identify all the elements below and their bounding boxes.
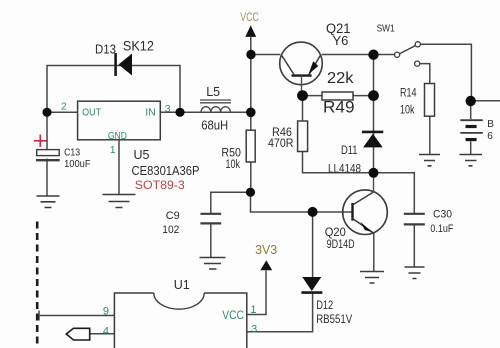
resistor R46 bbox=[268, 121, 308, 152]
wire bbox=[373, 55, 375, 173]
svg-text:SK12: SK12 bbox=[123, 39, 154, 54]
svg-text:3V3: 3V3 bbox=[255, 243, 277, 257]
wire bbox=[118, 140, 120, 195]
svg-text:10k: 10k bbox=[226, 159, 241, 171]
wire bbox=[90, 333, 115, 335]
junction node dots bbox=[42, 50, 476, 217]
svg-text:D12: D12 bbox=[316, 300, 333, 312]
node VCC junction bbox=[246, 50, 255, 59]
wire bbox=[211, 192, 251, 213]
node VCC arrow bbox=[245, 25, 256, 37]
resistor R14 bbox=[400, 84, 435, 117]
diode D13 bbox=[95, 39, 154, 77]
svg-text:9D14D: 9D14D bbox=[327, 239, 355, 251]
ground bbox=[37, 196, 60, 208]
svg-text:0.1uF: 0.1uF bbox=[430, 223, 453, 235]
svg-text:D13: D13 bbox=[95, 42, 116, 57]
svg-text:Q20: Q20 bbox=[325, 227, 346, 239]
wire bbox=[47, 111, 78, 113]
svg-text:9: 9 bbox=[103, 306, 109, 318]
wire bbox=[413, 225, 415, 267]
node battery junction bbox=[466, 96, 476, 106]
capacitor C13 bbox=[34, 135, 91, 170]
capacitor C9 bbox=[162, 210, 221, 236]
wire bbox=[210, 224, 212, 258]
diode D12 bbox=[301, 277, 352, 326]
svg-text:1: 1 bbox=[110, 144, 116, 156]
node D11/Q20 junction bbox=[369, 168, 379, 178]
svg-text:470R: 470R bbox=[268, 138, 294, 150]
wire bbox=[312, 212, 314, 277]
svg-text:6: 6 bbox=[487, 131, 493, 142]
svg-text:100uF: 100uF bbox=[64, 158, 91, 170]
svg-text:IN: IN bbox=[145, 106, 156, 118]
svg-text:68uH: 68uH bbox=[201, 118, 228, 132]
IC U1 bbox=[103, 278, 257, 348]
ground bbox=[200, 258, 226, 270]
wire bbox=[251, 54, 280, 56]
svg-text:1: 1 bbox=[250, 304, 256, 316]
svg-text:SOT89-3: SOT89-3 bbox=[135, 180, 185, 192]
svg-text:C30: C30 bbox=[433, 209, 452, 221]
svg-text:RB551V: RB551V bbox=[316, 314, 352, 326]
svg-text:CE8301A36P: CE8301A36P bbox=[132, 164, 200, 178]
node R50/C9 junction bbox=[246, 188, 255, 197]
wire bbox=[470, 142, 472, 155]
svg-text:2: 2 bbox=[61, 101, 67, 113]
wire bbox=[303, 95, 323, 97]
wire bbox=[420, 64, 430, 84]
svg-text:102: 102 bbox=[162, 224, 179, 236]
svg-text:L5: L5 bbox=[206, 85, 220, 99]
node R49/D11 junction bbox=[368, 90, 379, 101]
svg-text:GND: GND bbox=[108, 130, 127, 142]
svg-text:B: B bbox=[487, 119, 494, 130]
wire bbox=[322, 54, 395, 56]
svg-text:22k: 22k bbox=[327, 70, 355, 87]
wire bbox=[38, 311, 40, 321]
resistor R49 bbox=[322, 70, 355, 116]
diode D11 bbox=[328, 132, 383, 176]
wire bbox=[250, 37, 252, 112]
wire bbox=[420, 44, 471, 96]
inductor L5 bbox=[200, 85, 231, 132]
svg-text:U5: U5 bbox=[134, 148, 150, 162]
svg-text:10k: 10k bbox=[400, 105, 415, 117]
svg-text:LL4148: LL4148 bbox=[328, 164, 361, 176]
wire bbox=[251, 192, 353, 212]
svg-text:R49: R49 bbox=[323, 98, 355, 116]
battery B bbox=[460, 119, 494, 142]
node U5 OUT junction bbox=[42, 108, 51, 117]
wire bbox=[470, 101, 472, 119]
wire bbox=[39, 315, 114, 317]
wire bbox=[373, 233, 375, 271]
connector pin4 flag bbox=[66, 328, 89, 340]
node Q20 base junction bbox=[308, 207, 318, 217]
transistor Q20 bbox=[325, 173, 388, 251]
wire bbox=[160, 111, 246, 113]
wire bbox=[247, 271, 266, 315]
IC U5 bbox=[61, 101, 200, 193]
svg-text:Y6: Y6 bbox=[333, 33, 349, 48]
ground bbox=[419, 155, 440, 166]
svg-text:3: 3 bbox=[251, 324, 257, 336]
wire bbox=[250, 112, 252, 130]
wire bbox=[250, 162, 252, 192]
ground bbox=[103, 195, 136, 208]
wire bbox=[303, 152, 374, 173]
node SW1 junction bbox=[368, 50, 378, 60]
wire bbox=[46, 159, 48, 197]
svg-text:C13: C13 bbox=[64, 147, 80, 159]
wire bbox=[353, 95, 374, 97]
wire bbox=[429, 116, 431, 154]
switch SW1 bbox=[377, 24, 421, 67]
transistor Q21 bbox=[280, 21, 351, 91]
wire bbox=[47, 66, 180, 112]
node Q21 collector junction bbox=[297, 90, 308, 101]
capacitor C30 bbox=[404, 209, 454, 235]
svg-text:OUT: OUT bbox=[82, 106, 101, 118]
svg-text:U1: U1 bbox=[174, 278, 190, 292]
svg-text:4: 4 bbox=[103, 326, 109, 338]
wire bbox=[46, 113, 48, 150]
wire bbox=[471, 100, 500, 102]
svg-text:R14: R14 bbox=[400, 87, 417, 99]
svg-text:C9: C9 bbox=[166, 210, 180, 222]
ground bbox=[405, 267, 425, 279]
svg-text:VCC: VCC bbox=[222, 308, 244, 322]
dashed boundary line bbox=[36, 222, 39, 346]
ground bbox=[360, 272, 384, 284]
ground bbox=[460, 155, 483, 166]
wire bbox=[247, 293, 313, 332]
svg-text:SW1: SW1 bbox=[377, 24, 395, 35]
resistor R50 bbox=[221, 130, 255, 171]
node L5/R50 junction bbox=[246, 108, 256, 118]
svg-text:R50: R50 bbox=[221, 148, 241, 160]
wire bbox=[302, 96, 304, 121]
node U5 IN junction bbox=[175, 108, 184, 117]
node 3V3 arrow bbox=[260, 260, 272, 270]
svg-text:D11: D11 bbox=[341, 145, 358, 157]
svg-text:VCC: VCC bbox=[240, 12, 258, 24]
svg-text:3: 3 bbox=[165, 103, 171, 115]
wire bbox=[374, 173, 415, 213]
